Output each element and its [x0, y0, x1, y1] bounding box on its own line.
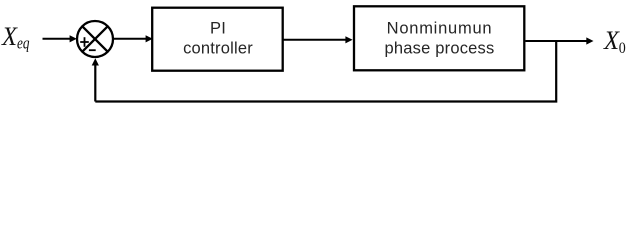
svg-text:phase process: phase process [385, 39, 495, 57]
svg-text:X: X [1, 22, 18, 51]
svg-text:Nonminumun: Nonminumun [387, 20, 493, 38]
svg-text:X: X [603, 26, 620, 55]
svg-text:controller: controller [183, 39, 253, 57]
svg-text:eq: eq [17, 34, 30, 53]
svg-text:0: 0 [619, 40, 626, 57]
svg-text:PI: PI [210, 20, 226, 38]
